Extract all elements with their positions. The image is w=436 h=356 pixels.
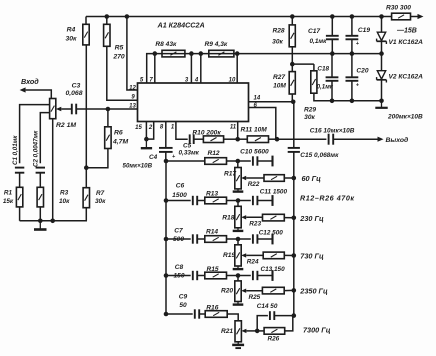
ground symbol under pin 15 [145,139,147,148]
wire R11 to output node [269,138,278,140]
svg-text:R6: R6 [114,130,123,137]
junction bus 230Hz [292,216,297,221]
resistor R8 [162,50,185,57]
svg-text:C7: C7 [174,228,183,235]
wire C1 to R1 [19,173,21,188]
wire node to R17 [237,161,239,168]
wire R29 down [313,64,315,71]
wire C17 to mid wire [331,39,333,53]
wire R25 to bus [284,289,294,291]
wire C13 to terminal [258,275,273,277]
wire node to R29 top [292,63,314,65]
capacitor C10 [252,156,254,165]
wire output node to C16 [277,138,326,140]
svg-text:C6: C6 [176,183,185,190]
svg-text:500: 500 [173,236,184,243]
wire top rail to R28 [291,17,293,25]
junction ground rail / R2 [50,219,55,224]
svg-text:C15 0,068мк: C15 0,068мк [300,152,339,159]
resistor R22 [264,175,284,182]
capacitor C3 [71,104,73,115]
resistor R30 [392,13,411,20]
junction wiper R21 / C14 loop [255,329,260,334]
wire C19 column top [351,17,353,36]
wire C14 to bus end [274,315,294,317]
tap wire R2 to C1 column [20,105,50,164]
wire C12 to terminal [258,238,273,240]
wire node to R27 [291,64,293,72]
svg-text:230 Гц: 230 Гц [299,214,324,223]
resistor R26 [264,328,285,335]
svg-text:4,7М: 4,7М [112,138,128,145]
junction R12/C10/R17 [236,159,241,164]
resistor R9 [209,50,234,57]
wire node to R19 [237,239,239,245]
ground symbol under R19 [237,266,239,269]
wire C7 to R14 [197,238,205,240]
svg-text:R18: R18 [222,214,234,221]
wire pin 8 to C4 [165,122,167,148]
svg-text:R4: R4 [67,26,76,33]
junction R4/R6/R7 node [84,165,89,170]
wire R4 down to node [85,45,87,168]
svg-text:C12 500: C12 500 [259,229,284,236]
svg-text:C11 1500: C11 1500 [260,188,288,195]
pin 7 stub [154,54,156,83]
ground symbol under R20 [237,302,239,305]
resistor R3 [37,187,43,207]
svg-text:R9 4,3к: R9 4,3к [205,41,228,48]
wire node to C11 [238,200,251,202]
svg-text:R19: R19 [223,252,235,259]
wire bus to C9 [166,313,193,315]
wire C20 column [351,54,353,78]
wire input to R2 top [26,90,52,99]
wire V1 to mid junction [381,41,383,53]
capacitor C1 [15,167,24,169]
resistor R27 [289,72,295,94]
wire R2 bottom to ground rail [52,119,54,221]
resistor R29 [311,71,317,93]
svg-text:R12–R26 470к: R12–R26 470к [300,193,355,202]
junction left bus row3 [164,237,169,242]
zener diode V2 KC162A [377,71,385,79]
potentiometer R21 [235,321,241,342]
svg-text:0,068: 0,068 [65,90,82,97]
junction mid wire / C19 [350,51,355,56]
svg-text:C3: C3 [72,83,81,90]
wire C18 to decoupling rail [331,81,333,101]
wire zener chain top [381,17,383,33]
junction zener midpoint [379,51,384,56]
svg-text:—15В: —15В [396,28,417,35]
junction bus 2350Hz [292,288,297,293]
capacitor C13 [252,271,254,280]
wire R24 to bus [284,254,294,256]
resistor R10 [203,136,223,143]
resistor R28 [289,25,295,47]
svg-text:R24: R24 [247,259,259,266]
junction decoupling rail / C20 [350,99,355,104]
svg-text:R23: R23 [249,220,261,227]
wiper arrow R17 [241,176,246,180]
wire top rail to R4 [85,17,87,25]
svg-text:R15: R15 [207,266,219,273]
wire loop up to C14 [257,316,268,331]
svg-text:C17: C17 [308,28,320,35]
svg-text:R20: R20 [221,287,233,294]
wire R26 up to bus end [285,316,293,331]
capacitor C14 [269,311,271,320]
svg-text:15к: 15к [3,198,14,205]
svg-text:Выход: Выход [386,136,409,144]
capacitor C12 [252,234,254,243]
wire C9 to R16 [199,313,205,315]
wire node to R7 [85,168,87,188]
svg-text:R14: R14 [206,228,218,235]
ground symbol under R18 [237,228,239,231]
wire C8 to R15 [197,275,205,277]
capacitor C2 [36,167,45,169]
capacitor C6 [192,196,194,205]
wire C2 to R3 [39,173,41,188]
wire bottom ground rail [20,220,87,222]
capacitor C15 [288,147,300,149]
svg-text:30к: 30к [95,198,106,205]
svg-text:30к: 30к [304,114,315,121]
supply arrow -15V [418,14,424,19]
wire pin 1 to C5 [176,122,188,140]
capacitor C4 (electrolytic) [159,147,173,149]
junction C3 wire / R6 [106,107,111,112]
svg-text:0,33мк: 0,33мк [179,149,200,156]
svg-text:R28: R28 [272,27,284,34]
svg-text:C4: C4 [149,154,158,161]
svg-text:12: 12 [129,85,136,91]
wire R7 to ground rail [85,208,88,221]
ground symbol under R21 [237,342,239,345]
resistor R13 [205,197,227,204]
junction left bus / R12 row [164,159,169,164]
wire C10 to terminal [258,160,273,162]
junction bus 60Hz [292,176,297,181]
svg-text:200мк×10В: 200мк×10В [387,114,423,121]
terminal bar after C10 [271,156,273,167]
svg-text:C20: C20 [356,67,368,74]
potentiometer R19 [235,245,241,266]
resistor R1 [16,187,22,207]
svg-text:R11 10М: R11 10М [241,127,268,134]
svg-text:R2 1М: R2 1М [56,122,76,129]
pin 3 stub [190,54,192,83]
wire R15 to node [227,275,239,277]
junction mid wire / C17 [330,51,335,56]
zener diode V1 KC162A [377,32,385,40]
wire top supply rail [86,16,392,18]
svg-text:50мк×10В: 50мк×10В [123,163,153,170]
ground symbol under R17 [237,189,239,192]
wire R3 to ground rail [39,207,41,221]
svg-text:R1: R1 [4,190,13,197]
svg-text:Вход: Вход [21,77,39,86]
svg-text:R7: R7 [96,190,105,197]
svg-text:C19: C19 [358,27,370,34]
junction top rail / pin12 line [125,14,130,19]
wire node to R11 [238,138,248,140]
junction top rail / R5 [105,14,110,19]
wire R29 to decoupling rail [314,93,382,101]
wire C19 to mid wire [351,39,353,53]
junction R13/C11/R18 [236,198,241,203]
svg-text:1500: 1500 [172,192,187,199]
potentiometer R18 [235,206,241,228]
resistor R4 [83,24,89,45]
wire top rail to pin 12 [127,17,138,91]
svg-text:270: 270 [112,54,125,61]
wire bus to C6 [166,200,191,202]
capacitor C5 [189,134,191,144]
wire V2 to decoupling rail [381,80,383,101]
wire R30 to supply arrow [411,16,419,18]
svg-text:730 Гц: 730 Гц [300,251,324,260]
svg-text:C14 50: C14 50 [257,303,278,310]
svg-text:15: 15 [135,125,142,131]
svg-text:C2 0,0047мк: C2 0,0047мк [33,130,40,167]
svg-text:0,1мк: 0,1мк [310,38,328,45]
wire R12 to node [227,160,238,162]
svg-text:R30 300: R30 300 [386,4,411,11]
svg-text:30к: 30к [272,39,283,46]
junction decoupling rail / C18 [330,99,335,104]
wire C16 to output arrow [333,138,378,140]
svg-text:R27: R27 [273,74,285,81]
svg-text:10М: 10М [273,83,286,90]
svg-text:R8 43к: R8 43к [155,41,177,48]
junction rail / pin10 [235,51,240,56]
wire C17 column top [331,17,333,36]
wire node to R18 [237,201,239,207]
svg-text:10к: 10к [59,198,70,205]
wire R5 to pin 9 [107,46,138,100]
wiper arrow R18 [241,215,246,219]
capacitor C18 [326,76,339,78]
svg-text:150: 150 [173,272,184,279]
wire R22 to bus [284,177,294,179]
svg-text:4: 4 [194,78,199,84]
svg-text:R29: R29 [304,106,316,113]
svg-text:0,1мк: 0,1мк [317,84,334,91]
wire node to R6 [107,109,109,127]
svg-text:10: 10 [229,78,236,84]
svg-text:R13: R13 [206,190,218,197]
svg-text:C10 5600: C10 5600 [240,148,269,155]
wire R1 to ground rail [19,207,21,221]
wire R16 to R21 [227,314,238,321]
svg-text:R17: R17 [224,170,236,177]
wire node to C13 [238,275,251,277]
svg-text:R16: R16 [206,305,218,312]
svg-text:2350 Гц: 2350 Гц [299,286,328,295]
junction power node pin14/bus [291,100,296,105]
wire R13 to node [227,200,239,202]
resistor R14 [205,236,227,243]
output arrow [378,137,384,142]
svg-text:C8: C8 [175,264,184,271]
svg-text:30к: 30к [65,35,77,42]
svg-text:50: 50 [179,302,187,309]
junction output row / pin11 [235,137,240,142]
wiper arrow R20 [241,289,246,293]
pin 10 stub [236,54,238,83]
capacitor C19 (electrolytic) [346,35,359,37]
resistor R6 [105,127,111,149]
tap wire R2 to C2 column [40,113,49,164]
wire C6 to R13 [197,200,205,202]
wire C4 to left bus [165,152,167,161]
potentiometer R17 [235,168,241,189]
wire bus to C8 [166,275,191,277]
resistor R23 [263,214,285,221]
junction bus 7300Hz [292,313,297,318]
svg-text:R3: R3 [60,190,69,197]
junction left bus row4 [164,273,169,278]
svg-text:А1 К284СС2А: А1 К284СС2А [157,21,205,30]
capacitor C17 [326,35,339,37]
svg-text:R5: R5 [115,44,124,51]
wire node to C12 [238,238,251,240]
junction bus 730Hz [292,253,297,258]
junction top rail / R28 [290,14,295,19]
svg-text:R12: R12 [208,150,220,157]
wire C11 to terminal [258,200,273,202]
junction R15/C13/R20 [236,273,241,278]
resistor R5 [104,24,110,46]
svg-text:R21: R21 [221,328,233,335]
junction rail / pin4 [199,51,204,56]
svg-text:2: 2 [148,125,153,131]
resistor R24 [263,252,284,259]
wire pin 11 down [237,122,239,140]
capacitor C7 [192,234,194,243]
wire bus to C7 [166,238,191,240]
svg-text:R10 200к: R10 200к [192,129,221,136]
capacitor C8 [192,271,194,280]
junction output node (pin6) [275,137,280,142]
junction decoupling rail end [379,99,384,104]
svg-text:C9: C9 [179,294,188,301]
terminal bar after C12 [271,234,273,245]
junction left bus row5 [164,312,169,317]
svg-text:C18: C18 [317,65,329,72]
junction top rail / C17 [330,14,335,19]
terminal bar after C11 [271,195,273,206]
potentiometer R20 [235,281,241,302]
potentiometer R2 [50,99,56,119]
wire pin 2 down [146,122,153,140]
wire wiper to R26 [257,330,264,332]
wire pin 6 to output node [249,108,276,140]
svg-text:C16 10мк×10В: C16 10мк×10В [310,127,355,134]
wire feedback rail (pins 5,7,3,4,10 to zener mid) [147,54,382,83]
capacitor C11 [252,196,254,205]
wire R27 to power node [291,94,293,102]
junction pins 15/2 [144,137,149,142]
wire R6 to R7 node [86,149,108,168]
svg-text:11: 11 [230,124,237,130]
junction ground rail / R3 [38,219,43,224]
svg-text:R26: R26 [268,335,280,342]
junction left bus row2 [164,198,169,203]
junction top rail / C19 [350,14,355,19]
wiper arrow R19 [241,253,246,257]
svg-text:13: 13 [129,104,136,110]
svg-text:R22: R22 [248,181,260,188]
resistor R25 [262,287,284,294]
wiper arrow of R2 [56,107,62,112]
wire bus to R12 [166,160,205,162]
input arrow [20,87,26,92]
wire node to C10 [238,160,251,162]
pin 4 stub [200,54,202,83]
op-amp IC A1 K284CC2A [138,83,249,122]
svg-text:7300 Гц: 7300 Гц [303,325,331,334]
wire pin 15 down [145,122,147,140]
svg-text:C1 0,01мк: C1 0,01мк [12,135,19,165]
svg-text:14: 14 [254,95,261,101]
wire C5 to R10 [194,138,204,140]
capacitor 200mk x 10V terminal [381,101,383,107]
wire left bus [165,161,167,314]
junction R28/R27/R29 [290,62,295,67]
ground symbol bottom-left [39,221,41,230]
svg-text:V1 КС162А: V1 КС162А [389,39,424,46]
wire top rail to R5 [106,17,108,25]
capacitor C9 [194,309,196,318]
wire C18 column [331,54,333,78]
junction rail / pin7 [153,51,158,56]
wire node to R20 [237,276,239,281]
wire R14 to node [227,238,239,240]
capacitor C16 [328,134,330,145]
wire right bus lower [293,152,295,316]
resistor R7 [83,188,89,208]
wire C20 to decoupling rail [351,81,353,101]
junction R14/C12/R19 [236,237,241,242]
wire mid junction to V2 [381,54,383,71]
wire R10 to node [224,138,238,140]
wire C3 to pin 13 [76,108,137,110]
wire R28 to R27 node [291,47,293,64]
junction rail / pin3 [189,51,194,56]
wire R23 to bus [284,217,294,219]
terminal bar after C13 [271,270,273,281]
wire pin 14 to power node [249,101,294,103]
resistor R15 [205,272,227,279]
junction top rail / V1 [379,14,384,19]
capacitor C20 (electrolytic) [346,76,359,78]
resistor R16 [205,311,227,318]
resistor R11 [247,136,268,143]
wire right bus upper [293,102,295,148]
svg-text:60 Гц: 60 Гц [302,174,322,183]
svg-text:V2 КС162А: V2 КС162А [389,73,424,80]
resistor R12 [205,158,227,165]
svg-text:R25: R25 [249,294,261,301]
wiper arrow R21 [241,329,246,333]
